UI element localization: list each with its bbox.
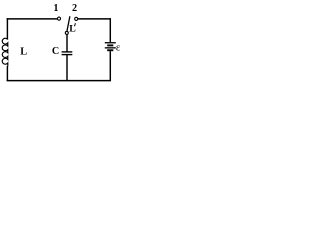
wire right vertical lower <box>109 51 111 81</box>
wire left vertical lower <box>6 66 8 81</box>
wire right vertical upper <box>109 18 111 42</box>
wire capacitor branch upper <box>66 35 68 52</box>
switch arm <box>67 16 70 31</box>
battery EMF source <box>105 43 116 51</box>
wire capacitor branch lower <box>66 55 68 81</box>
inductor L <box>2 38 8 66</box>
wire bottom <box>7 80 111 82</box>
wire top-right segment <box>78 18 111 20</box>
svg-text:L: L <box>20 47 27 58</box>
switch pivot <box>65 31 68 34</box>
wire top-left segment <box>7 18 58 20</box>
switch contact node 1 <box>57 17 60 20</box>
wire left vertical upper <box>6 18 8 39</box>
capacitor C plates <box>62 52 73 55</box>
svg-text:C: C <box>52 46 59 57</box>
svg-text:2: 2 <box>72 3 77 14</box>
svg-text:ε: ε <box>116 41 121 53</box>
svg-text:1: 1 <box>53 3 58 14</box>
switch contact node 2 <box>75 17 78 20</box>
